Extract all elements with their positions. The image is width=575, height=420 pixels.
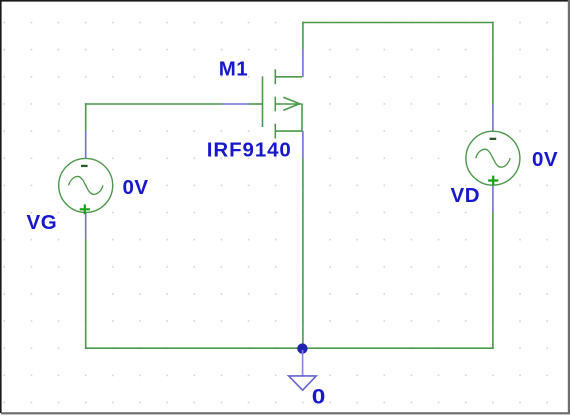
pin VD plus (top) [492, 104, 494, 131]
label 0 (ground net) [312, 386, 326, 409]
pin VG plus (top) [85, 131, 87, 159]
wire top horizontal (drain net) [302, 22, 493, 24]
voltage source VG [59, 158, 113, 214]
window frame: top black edge [0, 0, 570, 2]
svg-text:0: 0 [312, 386, 326, 409]
voltage source VD [466, 131, 520, 185]
svg-text:0V: 0V [532, 148, 558, 171]
junction dot (node at source/ground net) [297, 343, 307, 353]
wire VD lower vertical [492, 213, 494, 350]
svg-text:VG: VG [27, 211, 58, 234]
wire right vertical down to VD [492, 22, 494, 104]
wire gate horizontal from VG to M1 [85, 103, 222, 105]
value 0V (VG) [123, 176, 149, 199]
pin M1 source [302, 131, 304, 158]
label VG [27, 211, 58, 234]
window frame: left black edge [0, 0, 2, 413]
window frame: bottom gray edge [1, 412, 570, 414]
wire source vertical down to junction [302, 158, 304, 348]
svg-text:0V: 0V [123, 176, 149, 199]
svg-text:M1: M1 [219, 58, 248, 81]
transistor M1 (PMOS IRF9140) [249, 69, 302, 138]
wire VG upper vertical [85, 103, 87, 131]
wire bottom horizontal (ground net) [85, 347, 494, 349]
wire VG lower vertical [85, 240, 87, 349]
label IRF9140 (value of M1) [207, 138, 292, 161]
window frame: right gray edge [568, 0, 570, 414]
value 0V (VD) [532, 148, 558, 171]
pin VG minus (bottom) [85, 212, 87, 239]
label VD [451, 184, 481, 207]
svg-text:IRF9140: IRF9140 [207, 138, 292, 161]
pin M1 drain [302, 50, 304, 77]
label M1 [219, 58, 248, 81]
wire drain stub vertical [302, 22, 304, 50]
svg-text:VD: VD [451, 184, 481, 207]
pin VD minus (bottom) [492, 185, 494, 212]
ground [289, 350, 317, 390]
pin M1 gate [221, 103, 248, 105]
